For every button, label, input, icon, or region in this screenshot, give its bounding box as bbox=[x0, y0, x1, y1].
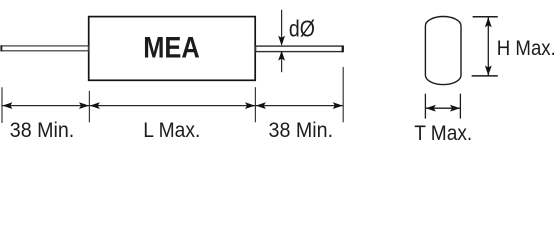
component body MEA bbox=[89, 17, 256, 81]
dimension dØ lower arrow bbox=[278, 51, 285, 73]
svg-text:38 Min.: 38 Min. bbox=[10, 117, 75, 142]
extension line right lead end bbox=[342, 67, 344, 122]
lead wire right bbox=[256, 46, 344, 53]
extension line T right bbox=[459, 94, 461, 119]
svg-text:L Max.: L Max. bbox=[143, 117, 200, 142]
svg-text:T Max.: T Max. bbox=[414, 120, 472, 145]
extension line left lead end bbox=[1, 87, 3, 123]
extension line body right bbox=[254, 87, 256, 122]
svg-text:38 Min.: 38 Min. bbox=[269, 117, 334, 142]
dimension line 38 Min. right bbox=[255, 102, 343, 109]
label dØ bbox=[289, 16, 315, 42]
svg-text:dØ: dØ bbox=[289, 16, 315, 42]
svg-text:MEA: MEA bbox=[143, 32, 200, 65]
extension line T left bbox=[424, 94, 426, 119]
label MEA bbox=[143, 32, 200, 65]
extension line H top bbox=[473, 16, 498, 18]
extension line H bottom bbox=[472, 75, 498, 77]
svg-text:H Max.: H Max. bbox=[497, 35, 554, 60]
dimension line H Max. bbox=[485, 17, 492, 76]
dimension line L Max. bbox=[89, 102, 255, 109]
end view body outline bbox=[425, 16, 461, 84]
lead wire left bbox=[0, 45, 88, 51]
extension line body left bbox=[88, 91, 90, 123]
dimension dØ upper arrow bbox=[278, 10, 285, 46]
dimension line T Max. bbox=[425, 105, 460, 112]
dimension line 38 Min. left bbox=[2, 102, 89, 109]
